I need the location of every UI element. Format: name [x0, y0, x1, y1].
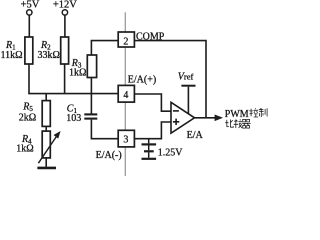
wire pin3 to op-amp non-inverting input: [134, 122, 171, 139]
wire +5V terminal to R1: [28, 15, 30, 37]
ground: [37, 167, 56, 170]
+12V supply terminal: [62, 10, 67, 15]
svg-text:1.25V: 1.25V: [158, 147, 184, 158]
svg-text:33kΩ: 33kΩ: [38, 50, 60, 61]
wire R2 to bus: [64, 64, 66, 94]
svg-text:4: 4: [123, 90, 128, 101]
hanzi 控: [249, 108, 258, 117]
svg-text:E/A(-): E/A(-): [96, 150, 122, 161]
svg-text:103: 103: [66, 113, 81, 124]
svg-text:1kΩ: 1kΩ: [16, 143, 33, 154]
wire junction to C1: [90, 94, 92, 114]
wire R1 to bus: [28, 64, 30, 94]
capacitor C1: [84, 113, 97, 115]
Vref supply symbol: [181, 85, 195, 87]
output arrowhead: [215, 115, 223, 122]
svg-text:2kΩ: 2kΩ: [19, 113, 36, 124]
wire op-amp output: [195, 117, 216, 119]
wire +12V terminal to R2: [64, 15, 66, 37]
wire R4 to ground: [45, 158, 47, 167]
svg-text:Vref: Vref: [178, 72, 194, 83]
svg-text:PWM: PWM: [225, 109, 249, 120]
pin 3 box: [118, 130, 134, 147]
svg-text:2: 2: [123, 36, 128, 47]
svg-text:3: 3: [123, 135, 128, 146]
hanzi 器: [242, 119, 251, 128]
hanzi 制: [259, 108, 267, 117]
resistor R2: [61, 37, 69, 64]
svg-text:E/A(+): E/A(+): [128, 75, 156, 86]
+5V supply terminal: [27, 10, 32, 15]
svg-text:E/A: E/A: [187, 130, 204, 141]
IC boundary line (gray): [124, 12, 126, 176]
wire pin4 to op-amp inverting input: [134, 94, 171, 111]
svg-text:+5V: +5V: [21, 0, 40, 10]
wire bus to R5: [45, 94, 47, 101]
wire R5 to R4: [45, 126, 47, 131]
wire C1 to E/A(-) wire: [91, 120, 118, 139]
resistor R5: [42, 101, 50, 127]
wire R3 to bus junction: [90, 78, 92, 94]
variable resistor R4: [42, 131, 50, 158]
pin 4 box: [118, 85, 134, 102]
arrow of variable resistor R4: [38, 136, 57, 164]
svg-text:1kΩ: 1kΩ: [69, 68, 86, 79]
1.25V reference source: [148, 139, 150, 144]
op-amp plus input symbol: [173, 121, 179, 123]
resistor R3: [87, 55, 96, 78]
wire pin2 COMP to op-amp output: [134, 41, 206, 118]
node bus wire to pin 4: [29, 92, 118, 95]
wire COMP node to R3: [91, 41, 118, 55]
svg-text:+12V: +12V: [53, 0, 77, 10]
resistor R1: [25, 37, 33, 64]
pin 2 box: [118, 32, 134, 47]
svg-text:11kΩ: 11kΩ: [1, 50, 23, 61]
hanzi 比: [225, 120, 233, 128]
op-amp minus input symbol: [173, 110, 179, 112]
hanzi 较: [234, 119, 242, 128]
op-amp E/A error amplifier: [171, 102, 195, 133]
